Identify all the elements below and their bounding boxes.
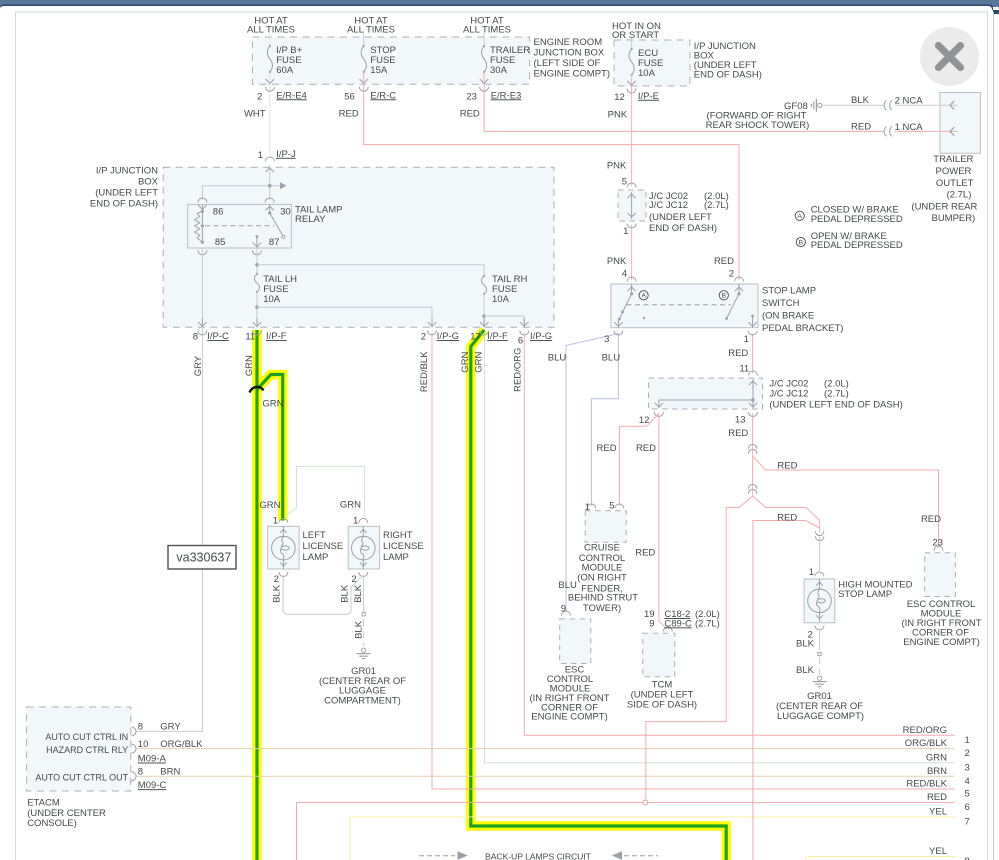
branch to tail rh fuse [257,265,484,276]
svg-text:E/R-C: E/R-C [370,90,396,101]
svg-text:STOP LAMP: STOP LAMP [762,286,816,297]
svg-text:SWITCH: SWITCH [762,298,800,309]
svg-text:OR START: OR START [612,30,659,41]
svg-text:2 NCA: 2 NCA [895,95,924,106]
connector 2 NCA [884,100,886,110]
svg-text:RIGHT: RIGHT [383,530,413,541]
legend B open w/ brake [796,237,805,246]
stop lamp switch internals [627,277,636,282]
wire BLU stop switch pin 3 to ESC pin 9 [566,334,618,613]
svg-text:RED: RED [728,428,748,439]
svg-text:YEL: YEL [929,807,947,818]
license lamp internals right [362,526,364,537]
wire RED J/C pin 13 down with branches [752,414,754,457]
svg-text:RED: RED [851,122,871,133]
svg-text:BLK: BLK [354,620,365,639]
svg-text:I/P-J: I/P-J [276,149,296,160]
wire to high mounted stop lamp pin 1 [819,537,821,571]
highlighted wire GRN pin 11 I/P-F down to bottom [252,330,262,860]
fuse ECU 10A [629,49,634,75]
svg-text:TRAILER: TRAILER [933,154,973,165]
wire BLK high mounted stop lamp to ground GR01 [819,628,821,650]
svg-text:SIDE OF DASH): SIDE OF DASH) [627,700,697,711]
svg-text:RED: RED [635,548,655,559]
svg-text:JUNCTION BOX: JUNCTION BOX [534,48,605,59]
svg-text:J/C JC02: J/C JC02 [769,378,808,389]
branch to relay coil pin 86 [202,186,280,200]
svg-text:END OF DASH): END OF DASH) [649,223,717,234]
wire RED to bottom from lamp connector [753,521,820,860]
svg-text:(UNDER REAR: (UNDER REAR [911,201,977,212]
relay lever 30-87 [270,213,283,235]
svg-text:10A: 10A [638,68,656,79]
svg-text:RED: RED [728,348,748,359]
svg-text:(ON BRAKE: (ON BRAKE [762,310,814,321]
svg-text:LAMP: LAMP [303,552,329,563]
svg-text:(LEFT SIDE OF: (LEFT SIDE OF [534,58,601,69]
svg-text:12: 12 [614,92,625,103]
I/P junction box (main) [163,167,554,327]
junction connector J/C JC02-JC12 lower [649,378,763,409]
svg-text:J/C JC12: J/C JC12 [649,200,688,211]
tail lamp relay box [188,204,292,248]
wire WHT from I/P B+ fuse to I/P junction box [269,33,271,46]
highlighted wire GRN pin 17 I/P-F to back-up lamps circuit [471,330,726,860]
svg-text:va330637: va330637 [176,551,231,565]
svg-text:2: 2 [257,91,262,102]
svg-text:10: 10 [138,739,149,750]
svg-text:(UNDER LEFT: (UNDER LEFT [95,188,158,199]
svg-text:GRN: GRN [340,500,361,511]
svg-text:BLU: BLU [548,353,567,364]
svg-text:13: 13 [735,415,746,426]
svg-text:POWER: POWER [936,166,972,177]
svg-text:J/C JC12: J/C JC12 [769,389,808,400]
connector 1 NCA [884,126,886,136]
svg-text:E/R-E4: E/R-E4 [276,90,307,101]
wire stub stop fuse [363,33,365,46]
svg-text:9: 9 [649,618,654,629]
tail lh fuse output [256,292,258,328]
wire RED J/C pin 12 to cruise pin 5 [619,414,659,506]
svg-text:E/R-E3: E/R-E3 [491,90,522,101]
wire stub trailer fuse [483,33,485,46]
svg-text:2: 2 [351,574,356,585]
svg-text:AUTO CUT CTRL OUT: AUTO CUT CTRL OUT [35,773,128,783]
trailer power outlet box [940,93,980,154]
ground GR01 license lamps [362,648,366,652]
svg-text:85: 85 [215,237,226,248]
svg-text:BUMPER): BUMPER) [931,213,975,224]
svg-text:BLU: BLU [558,580,577,591]
ground GF08 [818,103,822,107]
svg-text:RELAY: RELAY [295,214,326,225]
svg-text:8: 8 [193,332,198,343]
svg-text:11: 11 [739,364,749,375]
branch wire to pin 6 I/P-G [484,316,524,328]
svg-text:RED: RED [460,109,480,120]
wire RED J/C pin 12 to TCM [659,414,667,629]
svg-text:15A: 15A [370,65,388,76]
svg-text:M09-A: M09-A [138,754,167,765]
svg-text:B: B [799,239,804,246]
left license lamp box [268,526,299,569]
svg-text:BLK: BLK [353,584,364,603]
svg-text:3: 3 [965,762,970,773]
svg-text:GRN: GRN [460,351,471,372]
svg-text:1: 1 [273,516,278,527]
svg-text:(2.0L): (2.0L) [824,378,849,389]
svg-text:BLU: BLU [602,353,621,364]
svg-text:I/P-G: I/P-G [530,331,552,342]
svg-text:PNK: PNK [607,160,627,171]
tail lamp relay internals [198,198,207,203]
svg-text:12: 12 [639,415,650,426]
svg-text:I/P-F: I/P-F [487,331,508,342]
svg-text:A: A [641,293,646,300]
svg-text:PEDAL BRACKET): PEDAL BRACKET) [762,323,843,334]
svg-text:BOX: BOX [138,177,159,188]
svg-text:A: A [797,213,802,220]
svg-text:1: 1 [744,334,749,345]
back-up lamps circuit note [458,851,468,860]
svg-text:RED: RED [636,443,656,454]
relay link dashed [205,225,274,227]
svg-text:2: 2 [729,268,734,279]
svg-text:LEFT: LEFT [303,530,326,541]
ETACM pin arcs [132,727,137,736]
svg-text:CONSOLE): CONSOLE) [27,818,77,829]
wire GRN bridge left lamp to right lamp [286,467,365,520]
svg-text:BRN: BRN [160,767,180,778]
svg-text:1: 1 [809,567,814,578]
ESC control module box right [925,553,956,597]
wire BLK GF08 to trailer power outlet [822,104,884,106]
svg-text:RED: RED [714,256,734,267]
legend A closed w/ brake [795,211,804,220]
cruise control module box [585,511,626,542]
svg-text:LAMP: LAMP [383,552,409,563]
svg-text:RED: RED [921,514,941,525]
svg-text:AUTO CUT CTRL IN: AUTO CUT CTRL IN [45,732,128,742]
svg-text:WHT: WHT [244,109,266,120]
svg-text:RED: RED [597,443,617,454]
high mounted stop lamp box [804,579,835,623]
svg-text:1: 1 [965,735,970,746]
svg-text:23: 23 [932,537,943,548]
branch RED to ESC right pin 23 [753,456,939,547]
svg-text:(2.7L): (2.7L) [695,618,720,629]
svg-text:TOWER): TOWER) [583,603,621,614]
svg-text:LICENSE: LICENSE [303,541,344,552]
svg-text:10A: 10A [263,294,281,305]
svg-text:5: 5 [622,176,627,187]
svg-text:1: 1 [258,150,263,161]
svg-text:1 NCA: 1 NCA [895,122,924,133]
svg-text:6: 6 [965,802,970,813]
wire PNK ECU fuse to J/C pin 5 [631,75,633,186]
svg-text:86: 86 [213,207,224,218]
svg-text:RED: RED [777,512,797,523]
stop lamp switch box [611,284,758,328]
svg-text:I/P-F: I/P-F [266,331,287,342]
wire RED-BLK pin 2 I/P-G to pin 5 (bottom right) [432,333,955,789]
svg-text:BRN: BRN [927,766,947,777]
svg-text:17: 17 [470,332,481,343]
svg-text:(2.7L): (2.7L) [704,200,729,211]
wire RED bottom left riser to pin 6 [297,802,643,860]
license lamp internals left [282,526,284,537]
svg-text:CRUISE: CRUISE [584,542,620,553]
svg-text:1: 1 [353,516,358,527]
svg-text:ORG/BLK: ORG/BLK [905,738,948,749]
svg-text:I/P-C: I/P-C [207,331,229,342]
svg-text:GRN: GRN [262,398,283,409]
svg-text:RED/ORG: RED/ORG [512,348,523,392]
svg-text:3: 3 [604,334,609,345]
svg-text:ALL TIMES: ALL TIMES [463,24,511,35]
trailer power outlet internals [950,101,954,109]
svg-text:1: 1 [585,502,590,513]
svg-text:RED: RED [927,792,947,803]
wire YEL riser to pin 8 [806,857,955,860]
ESC control module box left [560,619,591,664]
svg-text:GRY: GRY [193,355,204,376]
svg-text:RED/ORG: RED/ORG [903,725,947,736]
engine room junction box [252,37,529,84]
branch RED left toward RED junction circle [646,496,753,800]
top fuse pin arcs [265,87,274,92]
va330637 box [168,546,236,570]
J/C lower internals [752,379,754,400]
I/P junction box (ECU fuse) [614,40,690,86]
svg-text:ALL TIMES: ALL TIMES [347,24,395,35]
svg-text:GRN: GRN [244,355,255,376]
tail rh fuse output [483,294,485,328]
svg-text:B: B [722,293,727,300]
svg-text:10A: 10A [492,294,510,305]
svg-text:30: 30 [280,207,291,218]
svg-text:GRN: GRN [473,351,484,372]
svg-text:END OF DASH): END OF DASH) [694,70,762,81]
svg-text:GRY: GRY [160,722,181,733]
wire RED stop switch pin 1 to J/C pin 11 [752,334,754,374]
svg-text:GRN: GRN [926,752,947,763]
svg-text:11: 11 [245,332,255,343]
svg-text:ENGINE ROOM: ENGINE ROOM [534,37,603,48]
wire YEL riser to pin 7 [350,817,955,860]
high mounted stop lamp internals [819,579,821,590]
svg-text:4: 4 [622,268,627,279]
wire ORG-BLK ETACM hazard ctrl rly to pin 2 [137,748,955,750]
wire PNK J/C pin 1 to stop lamp switch pin 4 [631,225,633,280]
svg-text:REAR SHOCK TOWER): REAR SHOCK TOWER) [706,120,810,131]
svg-text:C89-C: C89-C [664,618,692,629]
svg-text:9: 9 [561,604,566,615]
svg-text:PNK: PNK [607,256,627,267]
svg-text:I/P-E: I/P-E [638,91,659,102]
svg-text:56: 56 [344,91,355,102]
svg-text:HAZARD CTRL RLY: HAZARD CTRL RLY [46,745,128,755]
svg-text:2: 2 [421,332,426,343]
pin 1 I/P-J arc [265,157,274,162]
svg-text:2: 2 [274,574,279,585]
svg-text:4: 4 [965,776,970,787]
wire BRN ETACM auto cut ctrl out to pin 4 [137,775,955,777]
svg-text:(UNDER LEFT END OF DASH): (UNDER LEFT END OF DASH) [769,400,902,411]
I/P junction box internal feed wire [269,166,271,200]
svg-text:60A: 60A [276,65,294,76]
wire BLK right lamp pin 2 to ground GR01 [363,575,365,613]
junction connector J/C JC02-JC12 upper [618,190,646,221]
wire GRN relay 87 to tail lh fuse and pins [256,248,258,274]
fuse STOP 15A [361,46,366,72]
highlighted branch to left license lamp [257,375,283,521]
wire BLU stop switch pin 3 to cruise pin 1 [591,334,618,506]
branch RED right to high mounted stop lamp [753,496,820,532]
fuse TRAILER 30A [482,46,487,72]
svg-text:LICENSE: LICENSE [383,541,424,552]
svg-text:M09-C: M09-C [138,780,167,791]
svg-text:BLK: BLK [339,584,350,603]
svg-text:RED: RED [339,109,359,120]
svg-text:(UNDER LEFT: (UNDER LEFT [649,212,712,223]
svg-text:LUGGAGE COMPT): LUGGAGE COMPT) [777,711,864,722]
svg-text:RED: RED [777,460,797,471]
svg-text:BLK: BLK [796,665,815,676]
wire RED-ORG pin 6 I/P-G to pin 1 (bottom right) [524,333,954,735]
svg-text:2: 2 [965,748,970,759]
cruise pin arcs [587,504,596,509]
svg-text:BACK-UP LAMPS CIRCUIT: BACK-UP LAMPS CIRCUIT [485,851,592,860]
svg-text:ENGINE COMPT): ENGINE COMPT) [534,69,611,80]
svg-text:ORG/BLK: ORG/BLK [160,739,203,750]
wire BLK left lamp pin 2 join [283,575,361,614]
svg-text:ENGINE COMPT): ENGINE COMPT) [531,712,608,723]
ground GR01 high mounted stop lamp [817,676,821,680]
junction circle on RED wire [643,800,648,805]
branch wire to pin 2 I/P-G [257,307,432,328]
svg-text:COMPARTMENT): COMPARTMENT) [324,696,401,707]
svg-text:(2.7L): (2.7L) [824,389,849,400]
svg-text:6: 6 [518,336,523,347]
svg-text:RED/BLK: RED/BLK [906,779,947,790]
svg-text:ALL TIMES: ALL TIMES [247,24,295,35]
svg-text:87: 87 [269,237,280,248]
fuse TAIL LH 10A [254,274,259,292]
svg-text:PEDAL DEPRESSED: PEDAL DEPRESSED [811,214,903,225]
svg-text:(2.7L): (2.7L) [947,190,972,201]
TCM pin arc [663,627,672,632]
svg-text:RED/BLK: RED/BLK [419,351,430,392]
svg-text:PNK: PNK [608,110,628,121]
switch lever B [727,294,740,319]
ESC right pin 23 stub [938,545,940,548]
svg-text:30A: 30A [490,65,508,76]
switch lever A [619,294,631,319]
wire RED stop fuse to stop lamp switch pin 2 [364,72,739,280]
wire RED trailer fuse to trailer power outlet [484,72,884,131]
svg-text:YEL: YEL [929,846,947,857]
svg-text:BLK: BLK [796,639,815,650]
svg-text:OUTLET: OUTLET [936,178,974,189]
svg-text:GRN: GRN [259,500,280,511]
svg-text:I/P-G: I/P-G [437,331,459,342]
svg-text:23: 23 [466,91,477,102]
TCM box [643,633,675,677]
fuse I/P B+ 60A [267,46,272,72]
I/P junction box bottom pin arcs and arrows [198,331,207,336]
junction hook at GRN branch [250,387,264,393]
svg-text:5: 5 [609,500,614,511]
svg-text:8: 8 [138,767,143,778]
wire stub ECU fuse [631,38,633,49]
svg-text:8: 8 [965,856,970,860]
fuse TAIL RH 10A [481,276,486,294]
svg-text:1: 1 [623,226,628,237]
wire GRY relay pin 85 to ETACM [137,248,203,731]
relay coil [201,211,203,242]
ESC left pin 9 arc [562,611,571,615]
svg-text:END OF DASH): END OF DASH) [90,199,158,210]
svg-text:7: 7 [965,817,970,828]
svg-text:(ON RIGHT: (ON RIGHT [577,573,627,584]
svg-text:8: 8 [138,722,143,733]
svg-text:I/P JUNCTION: I/P JUNCTION [96,166,158,177]
svg-text:BLK: BLK [272,584,283,603]
J/C upper internals [631,192,633,219]
svg-text:BLK: BLK [851,95,870,106]
svg-text:PEDAL DEPRESSED: PEDAL DEPRESSED [811,240,903,251]
ETACM box [27,707,131,791]
wire GRN pin 17 to connector pin 3 (bottom right) [485,332,955,763]
svg-text:ENGINE COMPT): ENGINE COMPT) [903,637,980,648]
svg-text:STOP LAMP: STOP LAMP [838,589,892,600]
svg-text:5: 5 [965,789,970,800]
right license lamp box [348,526,379,569]
